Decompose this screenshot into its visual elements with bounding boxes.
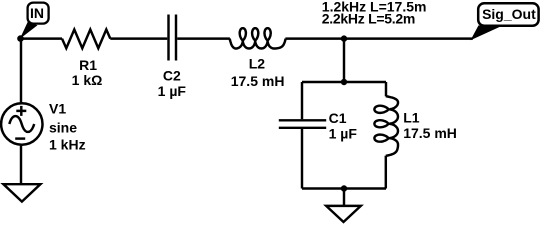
svg-text:C2: C2 [163,68,181,84]
svg-text:2.2kHz L=5.2m: 2.2kHz L=5.2m [322,11,415,27]
svg-text:17.5 mH: 17.5 mH [403,125,457,141]
tank right wire upper [385,82,387,96]
flag Sig_Out pointer wedge [471,25,501,40]
tank right wire lower [385,156,387,189]
capacitor C2 right plate [175,15,177,61]
V1 sine wave [9,116,34,132]
svg-text:1 kΩ: 1 kΩ [72,72,103,88]
capacitor C1 bottom plate [279,127,326,129]
svg-text:1 kHz: 1 kHz [49,137,86,153]
wire: R1 to C2 [110,37,167,39]
svg-text:R1: R1 [79,57,97,73]
svg-text:17.5 mH: 17.5 mH [231,73,285,89]
wire: node A down to V1 [20,39,22,104]
wire: node B down to tank [343,39,345,82]
wire: node A to resistor R1 [21,37,63,39]
wire: C2 to L2 [177,37,230,39]
svg-text:L1: L1 [403,109,420,125]
tank bottom wire [302,187,386,189]
wire: L2 to output pointer [285,37,472,39]
flag IN box [28,3,49,24]
flag Sig_Out box [478,3,538,26]
resistor R1 [62,30,110,49]
capacitor C2 left plate [167,15,169,61]
svg-text:C1: C1 [329,110,347,126]
inductor L1 coil [374,96,398,156]
svg-text:1 µF: 1 µF [158,83,187,99]
svg-text:IN: IN [30,5,44,21]
svg-text:Sig_Out: Sig_Out [482,6,536,22]
inductor L2 coil [230,28,286,48]
capacitor C1 top plate [279,119,326,121]
svg-text:L2: L2 [249,55,266,71]
V1 minus sign [15,137,25,139]
tank left wire upper [301,82,303,119]
voltage source V1 circle [1,103,42,144]
svg-text:1 µF: 1 µF [329,125,358,141]
svg-text:sine: sine [49,119,77,135]
flag IN pointer wedge [20,22,38,39]
wire: tank to ground [343,189,345,207]
tank top wire [302,81,386,83]
node B junction dot [341,35,347,41]
node A junction dot [17,35,24,42]
svg-text:V1: V1 [49,101,66,117]
ground (bottom) [326,206,361,222]
V1 plus sign [16,106,26,116]
tank left wire lower [301,129,303,189]
tank bottom junction dot [341,185,347,191]
ground (left) [3,184,40,201]
wire: V1 to ground [20,145,22,185]
tank top junction dot [341,79,347,85]
